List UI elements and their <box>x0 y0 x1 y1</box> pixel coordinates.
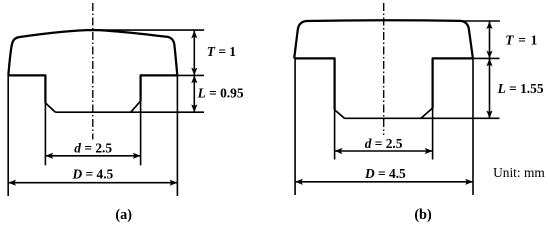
svg-text:d = 2.5: d = 2.5 <box>74 141 112 156</box>
dimension line L (a) <box>193 75 195 112</box>
shoulder and boss walls (a) <box>8 75 177 103</box>
dimension line D (b) <box>295 181 473 183</box>
dome outline (b) <box>294 20 473 58</box>
extension line: top of dome (b) <box>458 20 500 22</box>
svg-text:(b): (b) <box>414 207 432 223</box>
svg-text:L = 0.95: L = 0.95 <box>197 85 244 100</box>
extension line: d right (a) <box>140 101 142 165</box>
svg-text:T = 1: T = 1 <box>207 44 236 59</box>
dimension line d (b) <box>335 150 433 152</box>
centerline (a) <box>92 3 94 140</box>
dimension line L (b) <box>489 58 491 118</box>
extension line: d left (a) <box>44 103 46 165</box>
extension line: shoulder right (a) <box>177 74 204 76</box>
svg-text:T = 1: T = 1 <box>505 32 538 47</box>
svg-text:d = 2.5: d = 2.5 <box>365 136 403 151</box>
boss bottom face and L extension line (a) <box>55 111 204 113</box>
svg-text:Unit: mm: Unit: mm <box>493 165 545 180</box>
extension line: D left (a) <box>7 75 9 196</box>
boss chamfer left (a) <box>45 103 55 112</box>
boss bottom face and L extension line (b) <box>345 117 500 119</box>
svg-text:D = 4.5: D = 4.5 <box>72 167 114 182</box>
dimension line d (a) <box>45 155 140 157</box>
extension line: D right (a) <box>176 75 178 196</box>
extension line: shoulder right (b) <box>473 57 500 59</box>
extension line: d left (b) <box>334 110 336 160</box>
extension line: top of dome (a) <box>99 29 204 31</box>
dome outline (a) <box>8 30 177 75</box>
boss chamfer right (b) <box>421 108 433 118</box>
extension line: d right (b) <box>432 108 434 160</box>
dimension line D (a) <box>8 182 177 184</box>
dimension line T (b) <box>489 21 491 58</box>
svg-text:L = 1.55: L = 1.55 <box>497 81 544 96</box>
svg-text:D = 4.5: D = 4.5 <box>364 166 406 181</box>
boss chamfer left (b) <box>335 110 345 119</box>
shoulder and boss walls (b) <box>294 58 473 109</box>
svg-text:(a): (a) <box>115 207 132 223</box>
centerline (b) <box>383 3 385 135</box>
boss chamfer right (a) <box>131 101 141 112</box>
dimension line T (a) <box>193 30 195 75</box>
extension line: D right (b) <box>472 58 474 195</box>
extension line: D left (b) <box>294 58 296 195</box>
